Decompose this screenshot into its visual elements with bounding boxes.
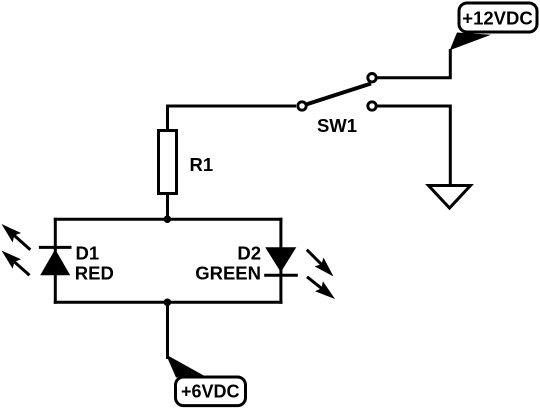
svg-text:SW1: SW1 (317, 115, 357, 136)
wire: bottom rail of LED bridge (54, 301, 283, 304)
wire: top rail of LED bridge (54, 218, 283, 221)
wire: SW1 pole to R1 top (168, 106, 297, 130)
switch SW1 lever (306, 84, 371, 105)
svg-text:+12VDC: +12VDC (462, 7, 532, 28)
callout tail +12VDC (450, 33, 491, 51)
switch SW1 throw 2 contact (368, 102, 376, 110)
wire: left branch (D1) (54, 218, 57, 304)
svg-text:GREEN: GREEN (195, 263, 261, 284)
svg-text:R1: R1 (190, 154, 214, 175)
wire: +12VDC to SW1 throw 1 (378, 49, 451, 78)
wire: R1 bottom to node A (166, 194, 169, 220)
svg-text:D1: D1 (76, 242, 100, 263)
resistor R1 (159, 131, 177, 194)
svg-text:+6VDC: +6VDC (181, 381, 240, 401)
svg-text:RED: RED (75, 263, 114, 284)
ground (429, 186, 471, 209)
power label +12VDC (459, 3, 537, 32)
wire: SW1 throw 2 to ground (378, 106, 451, 187)
LED D2 (264, 247, 298, 275)
LED D1 (39, 247, 72, 275)
node B junction dot (164, 299, 172, 307)
power label +6VDC (176, 377, 246, 406)
switch SW1 pole contact (298, 102, 306, 110)
wire: right branch (D2) (279, 218, 282, 304)
switch SW1 throw 1 contact (368, 74, 376, 82)
D1 emission arrows (2, 224, 31, 275)
callout tail +6VDC (166, 355, 205, 378)
wire: node B to +6VDC (166, 302, 169, 359)
node A junction dot (164, 215, 172, 223)
D2 emission arrows (307, 250, 335, 299)
svg-text:D2: D2 (237, 242, 261, 263)
